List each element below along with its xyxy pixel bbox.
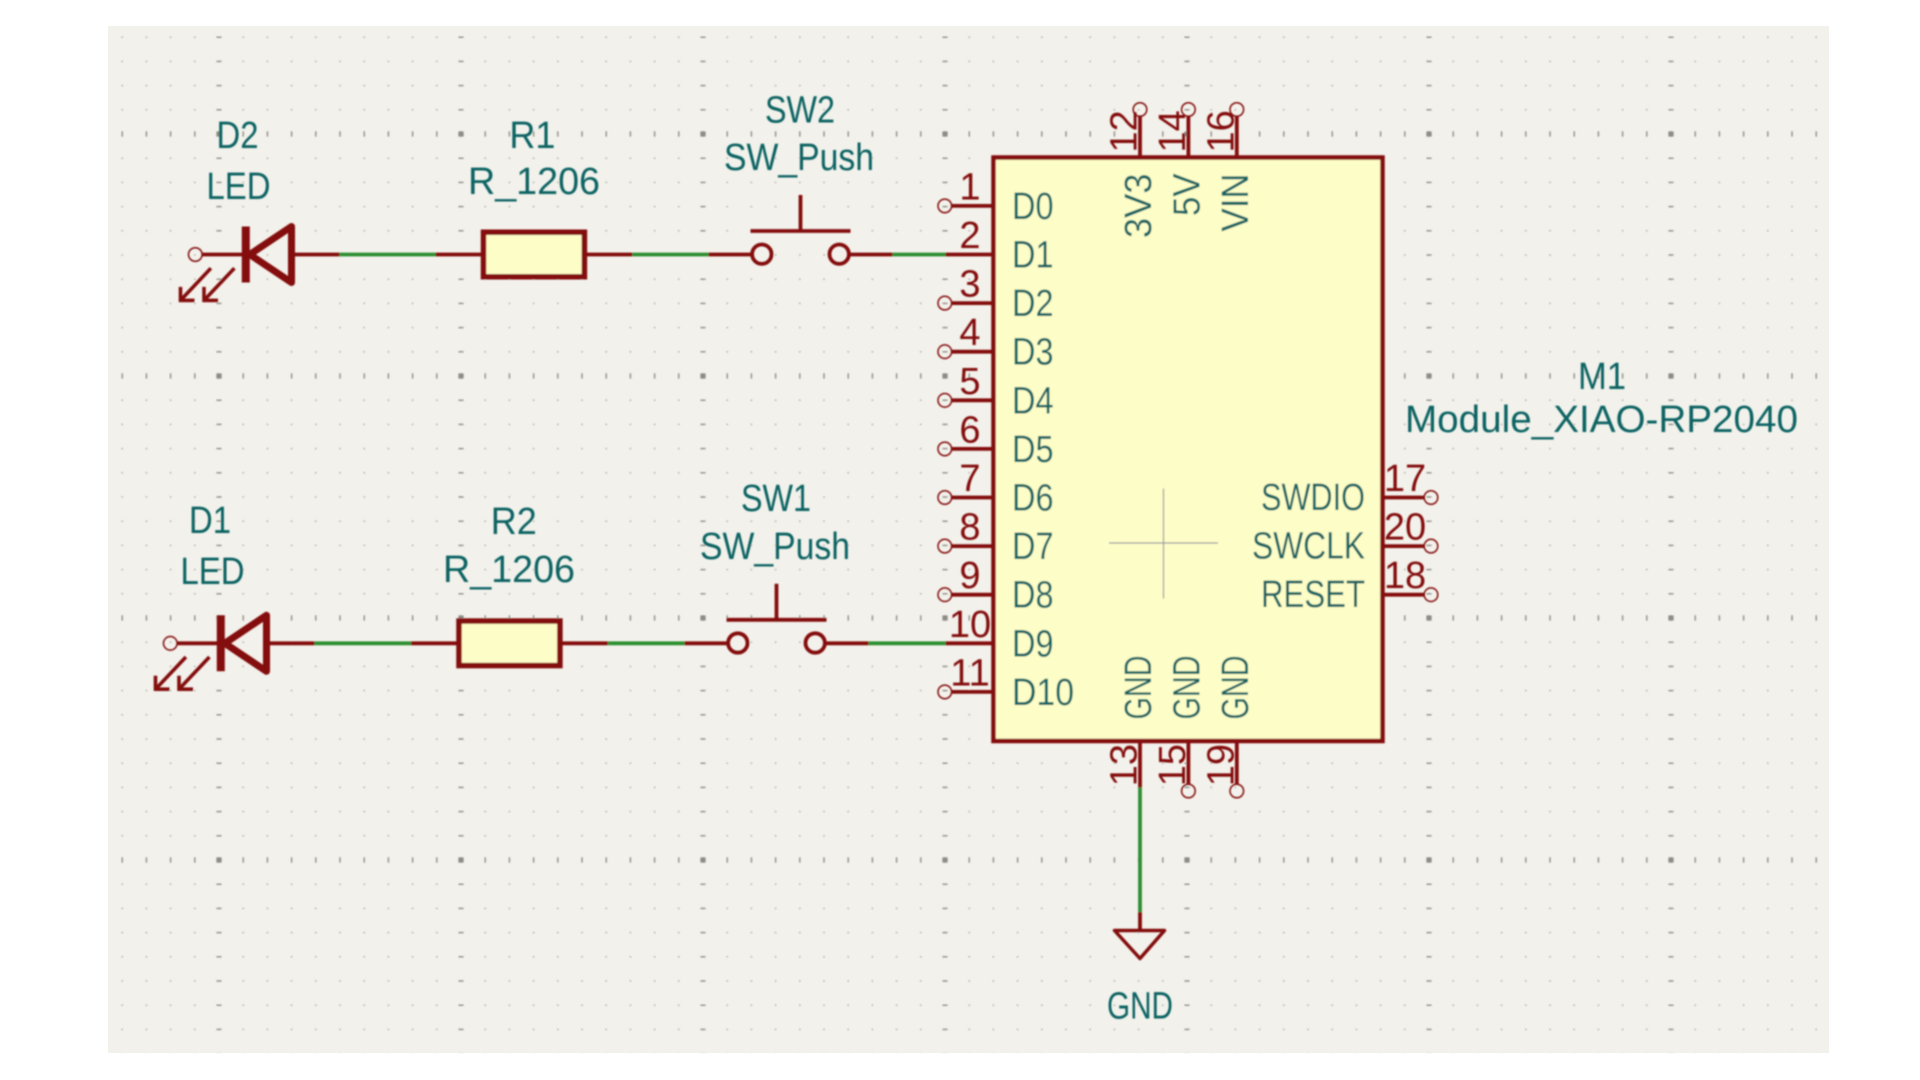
svg-text:D0: D0 (1012, 186, 1054, 228)
svg-text:4: 4 (959, 312, 980, 354)
svg-text:SWCLK: SWCLK (1252, 526, 1365, 568)
svg-text:GND: GND (1166, 656, 1208, 720)
svg-text:GND: GND (1215, 656, 1257, 720)
wire R1 to SW2 (632, 253, 708, 257)
svg-text:3: 3 (959, 264, 980, 306)
svg-text:D1: D1 (1012, 235, 1054, 277)
svg-text:D2: D2 (1012, 283, 1054, 325)
svg-text:2: 2 (959, 215, 980, 257)
resistor R2 (411, 621, 608, 666)
svg-text:D9: D9 (1012, 623, 1054, 665)
svg-text:3V3: 3V3 (1118, 174, 1160, 239)
svg-text:D1: D1 (189, 500, 231, 542)
LED D1 (154, 615, 315, 690)
pin 16 (VIN) of M1 (1200, 103, 1257, 232)
svg-text:D3: D3 (1012, 332, 1054, 374)
pin 2 (D1) of M1 (946, 215, 1054, 277)
svg-text:Module_XIAO-RP2040: Module_XIAO-RP2040 (1405, 399, 1798, 441)
svg-text:10: 10 (949, 604, 991, 646)
wire SW2 to pin D1 (893, 253, 946, 257)
switch SW1 SW_Push (685, 584, 869, 653)
svg-text:GND: GND (1118, 656, 1160, 720)
svg-text:M1: M1 (1578, 356, 1626, 398)
svg-text:18: 18 (1384, 555, 1426, 597)
svg-text:15: 15 (1152, 744, 1194, 786)
svg-text:RESET: RESET (1261, 574, 1365, 616)
svg-text:D6: D6 (1012, 478, 1054, 520)
svg-text:5V: 5V (1166, 173, 1208, 216)
svg-text:13: 13 (1104, 744, 1146, 786)
pin 6 (D5) of M1 (938, 409, 1054, 471)
wire R2 to SW1 (608, 641, 685, 645)
svg-text:14: 14 (1152, 110, 1194, 152)
wire D2 to R1 (340, 253, 436, 257)
pin 10 (D9) of M1 (946, 604, 1054, 666)
pin 14 (5V) of M1 (1152, 103, 1209, 216)
pin 20 (SWCLK) of M1 (1252, 507, 1438, 568)
svg-text:D2: D2 (217, 115, 259, 157)
svg-text:SW2: SW2 (765, 90, 835, 132)
svg-text:D4: D4 (1012, 380, 1054, 422)
pin 11 (D10) of M1 (938, 652, 1074, 714)
svg-text:R_1206: R_1206 (468, 161, 600, 203)
svg-text:SW_Push: SW_Push (724, 137, 874, 179)
svg-text:1: 1 (959, 166, 980, 208)
svg-text:12: 12 (1104, 110, 1146, 152)
pin 18 (RESET) of M1 (1261, 555, 1438, 616)
svg-text:R1: R1 (509, 115, 555, 157)
svg-text:SWDIO: SWDIO (1261, 477, 1365, 519)
pin 4 (D3) of M1 (938, 312, 1054, 374)
svg-text:20: 20 (1384, 507, 1426, 549)
svg-text:LED: LED (207, 166, 271, 208)
svg-text:D7: D7 (1012, 526, 1054, 568)
svg-text:SW_Push: SW_Push (700, 526, 850, 568)
pin 7 (D6) of M1 (938, 458, 1054, 520)
wire D1 to R2 (315, 641, 412, 645)
wire pin 13 to GND (1138, 788, 1142, 913)
pin 1 (D0) of M1 (938, 166, 1054, 228)
svg-text:D10: D10 (1012, 672, 1074, 714)
svg-text:16: 16 (1200, 110, 1242, 152)
svg-text:D8: D8 (1012, 575, 1054, 617)
pin 5 (D4) of M1 (938, 361, 1054, 423)
wire SW1 to pin D9 (869, 641, 946, 645)
pin 9 (D8) of M1 (938, 555, 1054, 617)
svg-text:SW1: SW1 (741, 478, 811, 520)
svg-text:GND: GND (1107, 986, 1173, 1028)
LED D2 (179, 227, 340, 302)
svg-text:9: 9 (959, 555, 980, 597)
pin 13 (GND) of M1 (1104, 656, 1161, 788)
switch SW2 SW_Push (709, 195, 893, 264)
pin 15 (GND) of M1 (1152, 656, 1209, 798)
svg-text:VIN: VIN (1215, 174, 1257, 232)
pin 3 (D2) of M1 (938, 264, 1054, 326)
svg-text:D5: D5 (1012, 429, 1054, 471)
svg-text:LED: LED (181, 551, 245, 593)
svg-text:11: 11 (950, 652, 989, 694)
pin 8 (D7) of M1 (938, 507, 1054, 569)
pin 17 (SWDIO) of M1 (1261, 458, 1438, 519)
svg-text:19: 19 (1200, 744, 1242, 786)
resistor R1 (436, 232, 633, 277)
svg-text:5: 5 (959, 361, 980, 403)
svg-text:6: 6 (959, 409, 980, 451)
module U/M1 Module_XIAO-RP2040 body (994, 158, 1383, 742)
svg-text:R2: R2 (491, 501, 537, 543)
svg-text:R_1206: R_1206 (443, 549, 575, 591)
svg-text:7: 7 (959, 458, 980, 500)
pin 12 (3V3) of M1 (1104, 103, 1161, 238)
ground GND power symbol (1115, 912, 1165, 959)
pin 19 (GND) of M1 (1200, 656, 1257, 798)
svg-text:8: 8 (959, 507, 980, 549)
svg-text:17: 17 (1384, 458, 1426, 500)
